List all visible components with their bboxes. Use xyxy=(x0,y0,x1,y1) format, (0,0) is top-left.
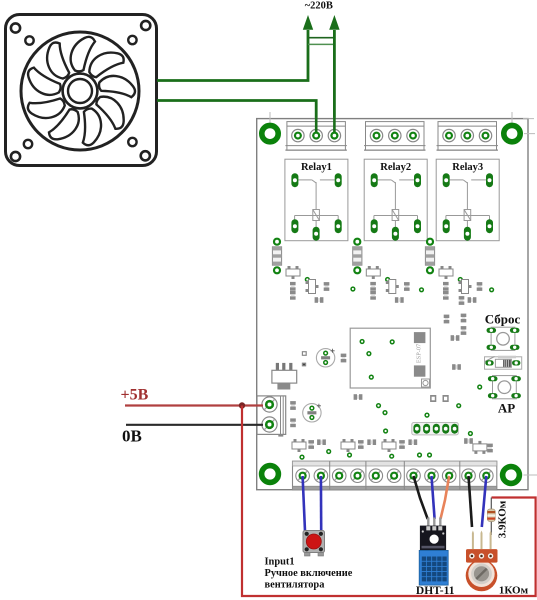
wire +5V loop to resistor xyxy=(242,406,536,597)
wire plug rung 1 xyxy=(308,37,334,39)
label Input1 xyxy=(265,557,353,591)
PCB board xyxy=(257,112,537,490)
component cluster 1 xyxy=(272,239,329,303)
relay Relay1 xyxy=(285,159,348,241)
svg-text:Input1: Input1 xyxy=(265,557,295,568)
wire fan bottom to board terminal xyxy=(157,101,316,121)
mounting hole TL xyxy=(262,125,278,141)
wire fan top to arrow xyxy=(157,30,308,81)
terminal block K2 xyxy=(364,122,426,151)
mounting hole BR xyxy=(503,467,520,484)
svg-text:Ручное включение: Ручное включение xyxy=(265,568,353,579)
svg-text:ESP-07: ESP-07 xyxy=(416,344,423,363)
svg-text:0В: 0В xyxy=(122,427,142,446)
svg-text:Сброс: Сброс xyxy=(485,311,521,326)
button АР xyxy=(488,376,521,399)
wire pot black xyxy=(469,476,473,527)
wire plug rung 2 xyxy=(308,43,334,45)
bottom terminal strip xyxy=(293,461,497,490)
wire DHT black xyxy=(414,476,428,519)
junction node xyxy=(239,402,245,408)
scattered pads right column xyxy=(459,296,465,305)
wire button blue right xyxy=(320,476,323,531)
mounting hole TR xyxy=(504,125,520,141)
svg-text:+5В: +5В xyxy=(121,387,149,404)
wire button blue left xyxy=(303,476,305,531)
via dots row mid xyxy=(350,286,355,291)
resistor R 3.9K xyxy=(487,498,495,536)
capacitor C2 xyxy=(303,404,321,422)
pads above header xyxy=(430,395,436,402)
svg-text:~220В: ~220В xyxy=(305,1,333,12)
pushbutton S1 xyxy=(303,531,325,557)
terminal block K3 xyxy=(437,122,499,151)
transistor Q4 TO-220 xyxy=(272,363,297,390)
header pads row J2 xyxy=(412,423,459,435)
terminal block J-power xyxy=(257,396,286,437)
potentiometer RV1 xyxy=(466,531,498,592)
svg-text:АР: АР xyxy=(498,401,515,416)
svg-text:Relay3: Relay3 xyxy=(452,162,483,173)
component cluster 2 xyxy=(353,239,410,303)
sensor DHT-11 xyxy=(419,518,448,586)
scattered pads left/mid column xyxy=(302,351,307,356)
wire into terminal 2 xyxy=(315,118,318,134)
arrow right xyxy=(329,15,339,30)
wire DHT blue xyxy=(432,476,435,519)
fan F1 xyxy=(6,15,157,166)
wire +5V red xyxy=(125,404,263,406)
wire DHT orange xyxy=(441,476,450,519)
wire pot blue xyxy=(482,476,487,527)
capacitor C1 xyxy=(316,349,334,367)
component cluster 3 xyxy=(425,239,482,303)
svg-text:вентилятора: вентилятора xyxy=(265,580,326,591)
ESP module U1 xyxy=(350,328,430,388)
arrow left xyxy=(303,15,313,30)
relay Relay3 xyxy=(436,159,499,241)
svg-text:Relay2: Relay2 xyxy=(380,162,411,173)
terminal block K1 xyxy=(285,122,347,151)
wire into terminal 3 xyxy=(333,118,336,134)
svg-text:DHT-11: DHT-11 xyxy=(416,585,455,597)
wire 0V black xyxy=(126,424,263,426)
svg-text:Relay1: Relay1 xyxy=(301,162,332,173)
relay Relay2 xyxy=(364,159,427,241)
wire right arrow to board terminal xyxy=(333,30,336,120)
mounting hole BL xyxy=(262,466,279,483)
switch SW mid xyxy=(485,356,522,369)
node terminal pads over wires xyxy=(312,132,338,140)
crosshair marks xyxy=(270,112,537,475)
svg-text:3.9КОм: 3.9КОм xyxy=(497,500,509,538)
svg-text:1КОм: 1КОм xyxy=(499,585,529,597)
bottom SOT row xyxy=(292,439,306,452)
